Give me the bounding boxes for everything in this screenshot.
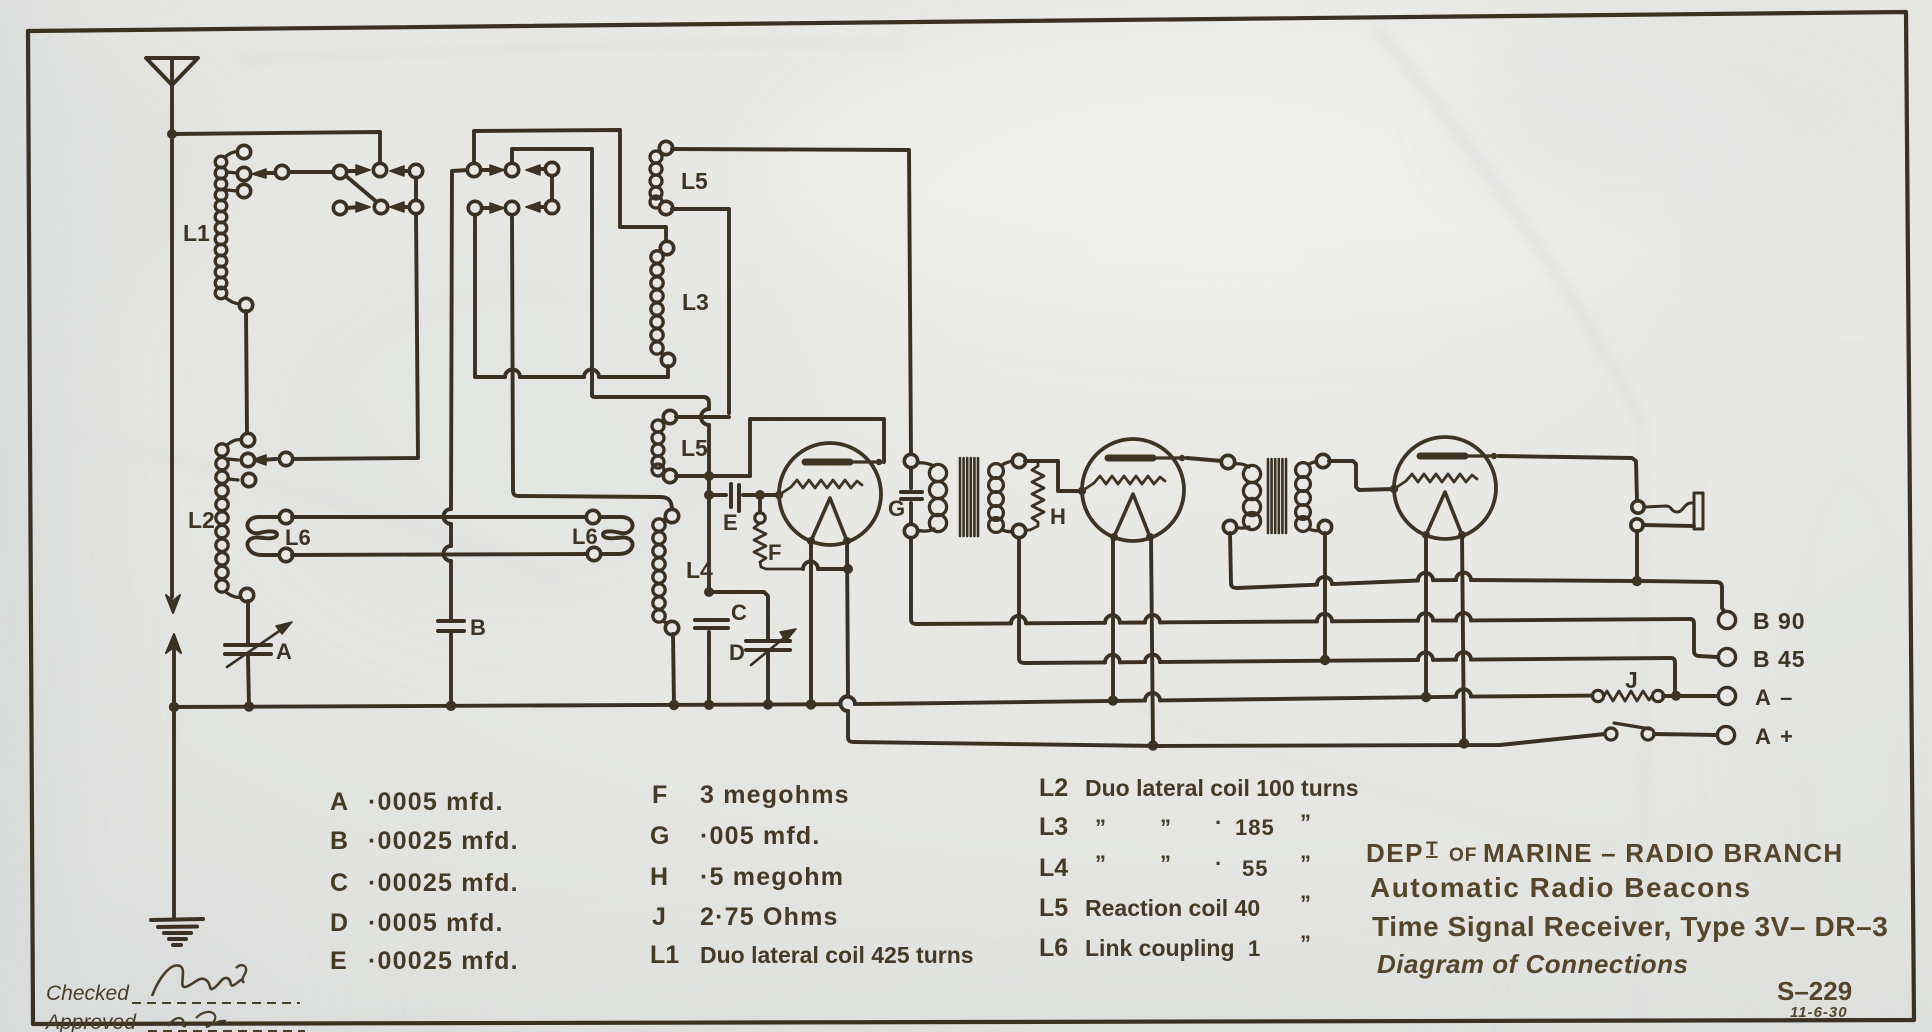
phone jack sleeve bar	[1694, 493, 1703, 529]
terminal B90	[1718, 611, 1735, 628]
tube V3 (second audio)	[1390, 437, 1499, 539]
battery switch on A+	[1605, 728, 1654, 740]
switch S1 row2 arrows	[346, 207, 360, 208]
wire L1 tap to switch1 with arrows	[262, 171, 276, 175]
wire V2 right filament leg to A+ line	[1151, 537, 1153, 745]
svg-text:L3: L3	[1039, 813, 1068, 841]
svg-text:J: J	[1625, 667, 1638, 693]
svg-text:D: D	[729, 640, 745, 665]
svg-text:B 45: B 45	[1753, 646, 1806, 672]
svg-text:·00025 mfd.: ·00025 mfd.	[368, 827, 519, 855]
wire A- bus	[174, 704, 840, 707]
transformer T2 primary	[1233, 464, 1261, 530]
resistor F (grid leak)	[758, 500, 762, 512]
approved dashed line	[148, 1030, 305, 1032]
wire hop over x592	[584, 370, 599, 377]
T1 terminals	[904, 454, 1025, 537]
wire T2 primary bottom down to B90 line	[1230, 533, 1237, 588]
svg-text:”: ”	[1300, 931, 1311, 956]
wire L5 lower bottom to plate loop line	[676, 474, 750, 478]
terminal A-	[1718, 687, 1735, 704]
svg-text:L6: L6	[285, 525, 311, 550]
wire B90 line from T2 primary bottom to jack and B90 terminal	[1237, 585, 1317, 588]
wire down-lead lower part to ground	[172, 649, 176, 917]
capacitor C	[695, 620, 728, 628]
wire branch to capacitor D	[709, 592, 768, 639]
coil L2	[216, 440, 242, 598]
wire hop over x513	[505, 370, 520, 377]
svg-text:E: E	[330, 947, 347, 975]
svg-text:·00025 mfd.: ·00025 mfd.	[368, 947, 519, 975]
svg-text:C: C	[731, 600, 747, 625]
wire V1 left filament leg to bus	[809, 541, 813, 704]
wire hop over L6 top	[444, 509, 452, 524]
svg-text:·0005 mfd.: ·0005 mfd.	[368, 909, 504, 937]
wire hop over L6 bottom	[444, 546, 452, 561]
L5 lower terminals	[663, 410, 676, 482]
svg-text:3 megohms: 3 megohms	[700, 781, 850, 809]
wire S2 row2-center down to L4 top	[512, 214, 672, 510]
resistor H	[1025, 461, 1044, 530]
wire V3 plate to jack	[1499, 456, 1637, 501]
switch S1 wiper arm	[346, 176, 378, 203]
transformer T2 core	[1268, 459, 1286, 533]
svg-text:OF: OF	[1449, 845, 1477, 866]
svg-text:”: ”	[1300, 810, 1311, 835]
svg-text:E: E	[723, 510, 738, 535]
phone jack tip spring	[1645, 503, 1693, 512]
L6 right terminals	[586, 510, 600, 560]
svg-text:A: A	[276, 639, 292, 664]
wire jack lower terminal to bar	[1643, 525, 1694, 526]
node bus left corner	[169, 702, 179, 712]
svg-text:G: G	[650, 822, 669, 850]
switch S2 arrows row2	[481, 206, 494, 210]
phone jack terminals	[1631, 501, 1644, 531]
wire capacitor A to bus	[248, 656, 249, 707]
svg-text:S–229: S–229	[1777, 976, 1852, 1006]
wire L1 bottom to L2 top	[246, 311, 247, 433]
svg-text:C: C	[330, 869, 348, 897]
L6 left terminals	[279, 510, 292, 561]
wire V2 plate to T2 primary	[1187, 458, 1222, 461]
wire L2 tap arrow	[262, 459, 276, 460]
switch S2 contact terminals	[467, 162, 558, 214]
svg-text:A –: A –	[1755, 685, 1794, 710]
svg-text:MARINE – RADIO BRANCH: MARINE – RADIO BRANCH	[1483, 838, 1843, 868]
svg-text:·005 mfd.: ·005 mfd.	[700, 822, 821, 850]
checked dashed line	[132, 1002, 300, 1004]
switch S1 contact terminals	[275, 163, 422, 465]
wire J to A- terminal	[1663, 694, 1718, 698]
wire L6 link top run	[292, 515, 587, 519]
svg-text:H: H	[650, 863, 668, 891]
svg-text:F: F	[768, 540, 781, 565]
svg-text:”: ”	[1300, 891, 1311, 916]
L3 terminals	[660, 241, 674, 366]
wire A+ line	[854, 734, 1605, 746]
coil L5 lower (reaction)	[652, 418, 673, 477]
ground	[151, 919, 203, 945]
svg-text:L5: L5	[681, 435, 708, 461]
svg-text:”: ”	[1095, 851, 1106, 876]
wire V3 right filament leg to A+ line	[1462, 535, 1464, 743]
coil L3	[651, 249, 672, 356]
svg-text:Reaction coil 40: Reaction coil 40	[1085, 895, 1260, 921]
svg-text:Checked: Checked	[46, 982, 130, 1005]
svg-text:L4: L4	[1039, 854, 1068, 882]
coil L1	[215, 152, 241, 304]
wire L5 upper top to transformer1 primary	[672, 149, 911, 455]
svg-text:Link coupling: Link coupling	[1085, 935, 1235, 961]
wire T1 primary bottom down to B45 line	[911, 538, 917, 624]
link coil L6 right	[600, 517, 633, 554]
svg-text:·: ·	[1215, 851, 1222, 876]
L4 terminals	[665, 509, 678, 634]
checked / approved	[44, 982, 137, 1032]
wire break arrows on down-lead	[166, 595, 180, 613]
svg-text:L6: L6	[1039, 934, 1068, 962]
svg-text:185: 185	[1235, 815, 1275, 840]
transformer T1 secondary	[989, 461, 1016, 532]
wire V3 left filament leg to A- bus	[1424, 535, 1428, 697]
wire T2 secondary bottom down to grid-return line	[1323, 533, 1327, 660]
wire antenna junction to switch1 top	[172, 132, 380, 164]
svg-text:B 90: B 90	[1753, 608, 1806, 634]
wire D to bus	[766, 652, 770, 704]
wire L4 bottom to bus	[673, 634, 674, 706]
svg-text:L6: L6	[572, 524, 598, 549]
svg-text:”: ”	[1095, 815, 1106, 840]
wire B45 line from T1 primary bottom to B45 terminal	[917, 621, 1011, 625]
transformer T1 primary	[916, 463, 947, 532]
svg-text:·5 megohm: ·5 megohm	[700, 863, 844, 891]
capacitor A (variable)	[225, 645, 271, 654]
wire S2 row2-left down to L3 bottom line	[475, 214, 505, 377]
title block	[1366, 838, 1888, 1021]
wire V1 right filament leg to A+ line	[847, 541, 848, 696]
wire grid-return line to A- node	[1025, 660, 1105, 664]
svg-text:·0005 mfd.: ·0005 mfd.	[368, 788, 504, 816]
svg-text:A: A	[330, 788, 348, 816]
capacitor E (grid condenser)	[731, 484, 739, 511]
wire L5 upper bottom to x729 down	[672, 209, 729, 413]
wire hop F-line over left filament leg	[803, 562, 818, 570]
svg-text:11-6-30: 11-6-30	[1790, 1004, 1848, 1021]
svg-text:B: B	[470, 615, 486, 640]
svg-text:H: H	[1050, 504, 1066, 529]
svg-text:Diagram of Connections: Diagram of Connections	[1377, 949, 1688, 979]
svg-text:L2: L2	[188, 507, 215, 533]
node C branch	[704, 587, 714, 597]
transformer T2 secondary	[1296, 461, 1322, 531]
svg-text:L2: L2	[1039, 774, 1068, 802]
svg-text:Duo lateral coil 100 turns: Duo lateral coil 100 turns	[1085, 775, 1359, 801]
svg-text:2·75 Ohms: 2·75 Ohms	[700, 903, 839, 931]
tube V2 (first audio)	[1078, 439, 1187, 541]
svg-text:F: F	[652, 781, 667, 809]
svg-text:G: G	[888, 496, 905, 521]
terminal A+	[1717, 726, 1734, 743]
wire L2 bottom to capacitor A	[246, 601, 250, 643]
svg-text:D: D	[330, 909, 348, 937]
L2 terminals	[240, 433, 255, 601]
resistor J	[1592, 690, 1663, 701]
wire jack lower terminal down to B90 line	[1635, 531, 1639, 581]
svg-text:·00025 mfd.: ·00025 mfd.	[368, 869, 519, 897]
wire L5 lower top to x729 with hop	[676, 415, 729, 419]
svg-text:”: ”	[1300, 851, 1311, 876]
link coil L6 left	[247, 517, 280, 555]
wire S1 right contacts link down to L2 tap line	[414, 177, 418, 201]
node antenna junction	[167, 129, 177, 139]
svg-text:”: ”	[1160, 851, 1171, 876]
coil L5 upper (reaction)	[650, 149, 671, 208]
L1 terminals	[237, 145, 252, 311]
svg-text:J: J	[652, 903, 666, 931]
wire S2 right contacts link	[550, 175, 554, 201]
capacitor D (variable)	[746, 641, 790, 650]
wire V2 left filament leg to A- bus	[1111, 537, 1115, 700]
transformer T1 core	[960, 458, 978, 536]
wire E to V1 grid	[743, 493, 779, 497]
L5 upper terminals	[659, 141, 672, 214]
svg-text:Approved: Approved	[44, 1011, 137, 1032]
svg-text:Duo lateral coil 425 turns: Duo lateral coil 425 turns	[700, 942, 974, 968]
svg-text:DEP: DEP	[1366, 838, 1424, 868]
wire L6 link bottom run	[292, 554, 588, 555]
wire plate loop of V1	[750, 419, 884, 476]
svg-text:T: T	[1426, 839, 1438, 860]
capacitor G on primary feed	[909, 461, 913, 488]
svg-text:·: ·	[1215, 810, 1222, 835]
svg-text:L1: L1	[183, 220, 210, 246]
svg-text:Time Signal Receiver, Type 3V–: Time Signal Receiver, Type 3V– DR–3	[1372, 911, 1888, 942]
antenna	[146, 58, 198, 85]
wire S2 left contact to B-line corner	[451, 170, 468, 509]
wire grid line from x709	[709, 493, 726, 497]
svg-text:”: ”	[1160, 815, 1171, 840]
wire T2 secondary top jog to V3 grid	[1329, 461, 1394, 490]
T2 terminals	[1221, 454, 1331, 533]
wire antenna stem down to junction	[170, 85, 174, 597]
capacitor B	[438, 621, 464, 631]
wire x709 hop over L5 wire	[701, 409, 709, 425]
svg-text:L3: L3	[682, 289, 709, 315]
svg-text:55: 55	[1242, 856, 1268, 881]
terminal B45	[1718, 648, 1735, 665]
wire S2 left contact up and top run to L3	[474, 130, 666, 242]
svg-text:1: 1	[1248, 936, 1260, 961]
svg-text:L5: L5	[1039, 894, 1068, 922]
svg-text:L1: L1	[650, 941, 679, 969]
signature checked	[152, 965, 243, 996]
svg-text:L4: L4	[686, 557, 713, 583]
coil L4	[653, 517, 674, 624]
svg-text:A +: A +	[1755, 724, 1795, 749]
signature approved	[168, 1018, 186, 1026]
switch S2 arrows row1	[480, 168, 494, 172]
svg-text:L5: L5	[681, 168, 708, 194]
wire T1 secondary top to V2 grid	[1025, 461, 1082, 491]
svg-text:Automatic Radio Beacons: Automatic Radio Beacons	[1370, 872, 1751, 903]
wire S2 center top contact up and run to x592	[512, 149, 592, 395]
svg-text:B: B	[330, 827, 348, 855]
wire L3 bottom stub	[666, 366, 670, 377]
wire C to bus	[707, 632, 711, 705]
wire capacitor B to bus	[449, 633, 453, 706]
wire T1 secondary bottom down to grid-return line	[1019, 538, 1025, 663]
wire x592 corner to x709 down	[592, 395, 709, 409]
tube V1 (detector)	[775, 443, 884, 545]
